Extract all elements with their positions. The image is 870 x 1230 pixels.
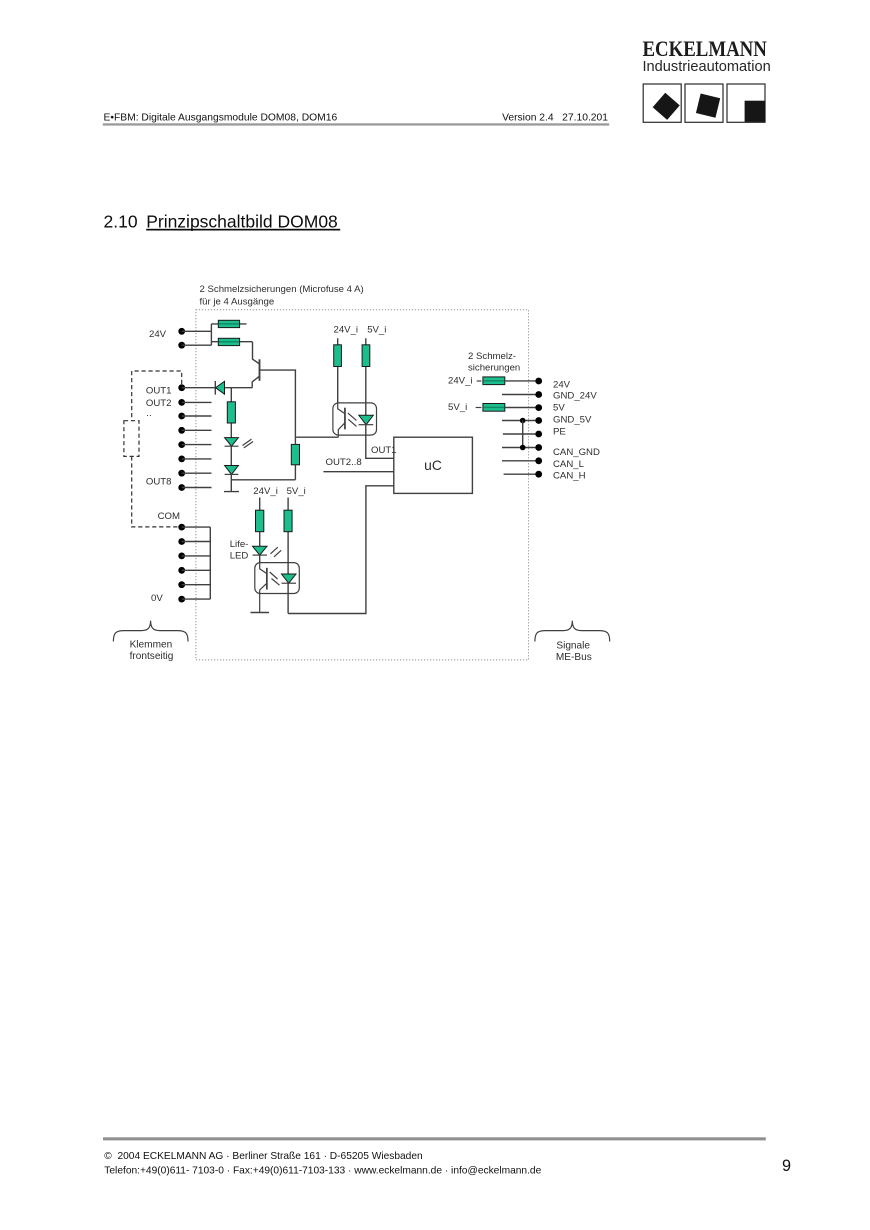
svg-text:© 2004 ECKELMANN AG · Berline: © 2004 ECKELMANN AG · Berliner Straße 16…	[104, 1151, 422, 1162]
svg-text:ME-Bus: ME-Bus	[556, 652, 592, 663]
svg-text:CAN_L: CAN_L	[553, 459, 585, 470]
svg-text:CAN_GND: CAN_GND	[553, 447, 600, 458]
svg-text:5V_i: 5V_i	[367, 324, 386, 335]
svg-text:24V_i: 24V_i	[253, 486, 278, 497]
svg-text:24V_i: 24V_i	[448, 376, 473, 387]
svg-text:GND_24V: GND_24V	[553, 390, 597, 401]
svg-text:..: ..	[146, 408, 151, 419]
svg-text:24V: 24V	[149, 329, 167, 340]
svg-text:24V_i: 24V_i	[334, 324, 359, 335]
svg-text:5V_i: 5V_i	[448, 402, 467, 413]
svg-text:OUT2..8: OUT2..8	[326, 457, 362, 468]
svg-text:COM: COM	[158, 511, 180, 522]
svg-text:Prinzipschaltbild DOM08: Prinzipschaltbild DOM08	[146, 211, 338, 231]
svg-text:2 Schmelzsicherungen (Microfus: 2 Schmelzsicherungen (Microfuse 4 A)	[200, 284, 364, 295]
svg-text:Version 2.4 27.10.201: Version 2.4 27.10.201	[502, 112, 608, 123]
svg-text:OUT8: OUT8	[146, 477, 172, 488]
svg-text:24V: 24V	[553, 380, 571, 391]
svg-text:2 Schmelz-: 2 Schmelz-	[468, 351, 516, 362]
svg-text:Signale: Signale	[556, 640, 590, 651]
svg-text:für je 4 Ausgänge: für je 4 Ausgänge	[200, 296, 275, 307]
svg-text:5V_i: 5V_i	[287, 486, 306, 497]
svg-text:CAN_H: CAN_H	[553, 470, 586, 481]
svg-text:Telefon:+49(0)611- 7103-0 · Fa: Telefon:+49(0)611- 7103-0 · Fax:+49(0)61…	[104, 1166, 541, 1177]
svg-text:OUT1: OUT1	[146, 385, 172, 396]
svg-text:sicherungen: sicherungen	[468, 362, 520, 373]
svg-text:uC: uC	[424, 458, 442, 473]
svg-text:E•FBM: Digitale Ausgangsmodule: E•FBM: Digitale Ausgangsmodule DOM08, DO…	[104, 112, 338, 123]
svg-text:GND_5V: GND_5V	[553, 415, 592, 426]
svg-text:ECKELMANN: ECKELMANN	[643, 37, 767, 61]
svg-text:Life-: Life-	[230, 539, 249, 550]
svg-text:LED: LED	[230, 550, 249, 561]
svg-text:Industrieautomation: Industrieautomation	[643, 59, 771, 75]
svg-text:2.10: 2.10	[104, 211, 138, 231]
svg-text:9: 9	[782, 1157, 791, 1175]
svg-text:5V: 5V	[553, 403, 565, 414]
svg-text:0V: 0V	[151, 593, 163, 604]
svg-text:frontseitig: frontseitig	[130, 651, 174, 662]
svg-text:OUT1: OUT1	[371, 445, 397, 456]
svg-text:PE: PE	[553, 427, 566, 438]
svg-text:Klemmen: Klemmen	[130, 640, 173, 651]
